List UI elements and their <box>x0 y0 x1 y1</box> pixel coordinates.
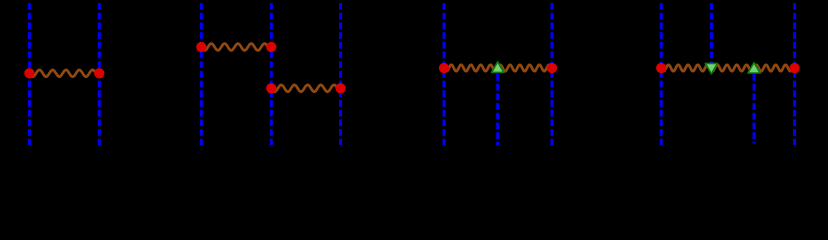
diagram-b upper wavy boson line <box>201 44 271 51</box>
diagram-c dashed line below triangle <box>496 74 499 146</box>
diagram-b left nucleon dashed line <box>200 3 203 145</box>
diagram-d right nucleon dashed line <box>793 3 796 145</box>
diagram-c left vertex dot <box>439 63 449 73</box>
diagram-a exchanged wavy boson line <box>29 70 99 77</box>
diagram-b upper-right vertex dot <box>266 42 276 52</box>
diagram-b lower-right vertex dot <box>335 83 345 93</box>
diagram-b middle nucleon dashed line <box>270 3 273 145</box>
diagram-d left nucleon dashed line <box>660 3 663 145</box>
diagram-c up-triangle contact vertex <box>492 62 504 73</box>
diagram-d dashed line above down-triangle <box>710 3 713 64</box>
diagram-a left vertex dot <box>24 68 34 78</box>
diagram-a right nucleon dashed line <box>98 3 101 145</box>
diagram-d up-triangle vertex <box>748 63 760 73</box>
diagram-d down-triangle vertex <box>705 63 717 73</box>
diagram-d right vertex dot <box>789 63 799 73</box>
diagram-d left vertex dot <box>656 63 666 73</box>
diagram-d dashed line below up-triangle <box>753 74 756 144</box>
diagram-c wavy boson line <box>444 65 552 71</box>
diagram-b lower-left vertex dot <box>266 83 276 93</box>
diagram-c right nucleon dashed line <box>551 3 554 145</box>
diagram-d wavy boson line <box>661 65 794 71</box>
diagram-b lower wavy boson line <box>271 85 340 92</box>
diagram-a left nucleon dashed line <box>28 3 31 145</box>
diagram-b upper-left vertex dot <box>196 42 206 52</box>
diagram-a right vertex dot <box>94 68 104 78</box>
diagram-c left nucleon dashed line <box>443 3 446 145</box>
diagram-c right vertex dot <box>547 63 557 73</box>
diagram-b right nucleon dashed line <box>339 3 342 145</box>
